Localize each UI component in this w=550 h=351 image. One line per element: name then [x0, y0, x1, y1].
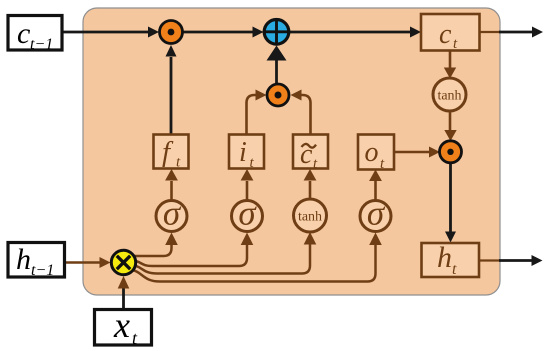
svg-text:h: h	[16, 243, 31, 276]
svg-text:σ: σ	[163, 194, 182, 233]
svg-text:tanh: tanh	[437, 89, 461, 104]
svg-text:c: c	[439, 19, 452, 50]
svg-text:i: i	[239, 137, 247, 168]
svg-text:t−1: t−1	[31, 262, 54, 279]
svg-text:t: t	[452, 261, 457, 278]
svg-text:t−1: t−1	[30, 36, 53, 53]
svg-text:o: o	[365, 137, 379, 168]
svg-text:σ: σ	[238, 194, 257, 233]
svg-text:h: h	[437, 241, 452, 274]
svg-text:x: x	[113, 305, 130, 345]
svg-text:tanh: tanh	[298, 210, 322, 225]
svg-text:c: c	[17, 17, 30, 50]
svg-text:σ: σ	[367, 194, 386, 233]
